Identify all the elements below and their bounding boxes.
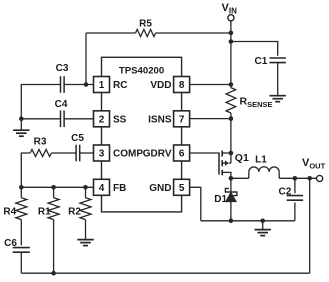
wire Q1 to L1 <box>231 177 249 179</box>
wire R1 to bus <box>53 220 55 274</box>
resistor R3 <box>30 136 51 156</box>
wire bottom bus <box>21 272 309 274</box>
node D1 anode junction <box>229 219 234 224</box>
svg-text:C3: C3 <box>56 63 69 74</box>
svg-text:C2: C2 <box>279 187 292 198</box>
node ISNS junction <box>229 116 234 121</box>
wire gnd stem left <box>20 119 22 130</box>
svg-text:7: 7 <box>179 114 185 125</box>
wire R3 to C5 <box>51 152 76 154</box>
pin 4 FB <box>94 179 127 195</box>
resistor R1 <box>38 187 59 219</box>
wire C2 bottom <box>294 203 296 221</box>
wire C1 to ground <box>277 63 279 96</box>
wire VIN down <box>230 21 232 85</box>
node C2 junction <box>293 176 298 181</box>
wire pin1 to C3 <box>64 84 93 86</box>
svg-text:R3: R3 <box>34 136 47 147</box>
svg-text:C4: C4 <box>55 99 68 110</box>
svg-text:L1: L1 <box>255 154 267 165</box>
wire GND pin5 <box>190 187 201 221</box>
svg-text:VDD: VDD <box>150 80 171 91</box>
ground under R2 <box>77 240 93 246</box>
wire C5 to pin3 <box>80 152 94 154</box>
wire to C1 <box>231 42 278 56</box>
svg-text:5: 5 <box>179 183 185 194</box>
wire C3 left <box>21 85 60 119</box>
wire C4 left stub <box>21 118 60 120</box>
svg-text:R5: R5 <box>139 19 152 30</box>
wire L1 to VOUT <box>279 177 316 179</box>
svg-text:R4: R4 <box>3 206 16 217</box>
wire C4 to pin2 <box>64 118 93 120</box>
svg-text:3: 3 <box>99 149 105 160</box>
wire GDRV to gate <box>190 152 219 154</box>
node RC junction <box>84 82 89 87</box>
node VDD junction <box>229 82 234 87</box>
pin 5 GND <box>149 179 189 195</box>
ground bottom <box>255 230 271 236</box>
node feedback junction <box>307 176 312 181</box>
svg-text:SS: SS <box>113 114 127 125</box>
svg-text:R1: R1 <box>38 206 51 217</box>
transistor Q1 <box>219 151 249 179</box>
capacitor C3 <box>56 63 69 93</box>
capacitor C1 <box>255 56 286 67</box>
terminal V_OUT <box>302 157 326 182</box>
svg-text:2: 2 <box>99 114 105 125</box>
svg-text:ISNS: ISNS <box>148 114 172 125</box>
wire R5 horizontal left <box>86 32 136 34</box>
node VIN-C1 junction <box>229 39 234 44</box>
svg-text:GND: GND <box>149 183 171 194</box>
wire ISNS <box>190 118 231 120</box>
wire rail to Q1 <box>230 119 232 153</box>
wire FB <box>21 186 93 188</box>
capacitor C2 <box>279 187 304 201</box>
svg-text:C6: C6 <box>4 238 17 249</box>
pin 7 ISNS <box>148 111 189 127</box>
wire ground stem <box>262 221 264 229</box>
wire C6 to bus <box>20 252 22 273</box>
node VIN-R5 junction <box>229 31 234 36</box>
svg-text:RSENSE: RSENSE <box>240 96 273 110</box>
svg-text:R2: R2 <box>68 206 81 217</box>
svg-text:6: 6 <box>179 149 185 160</box>
capacitor C5 <box>71 133 84 162</box>
svg-text:1: 1 <box>99 80 105 91</box>
resistor R2 <box>68 187 91 219</box>
diode D1 <box>214 188 237 205</box>
ground under C1 <box>270 96 286 102</box>
node FB-R2 junction <box>83 185 88 190</box>
wire VOUT feedback vertical <box>309 178 311 273</box>
svg-text:VIN: VIN <box>222 2 238 16</box>
ground left <box>13 130 29 136</box>
node Q1 source junction <box>229 151 234 156</box>
svg-text:RC: RC <box>113 80 127 91</box>
capacitor C4 <box>55 99 68 127</box>
svg-text:C1: C1 <box>255 56 268 67</box>
pin 2 SS <box>94 111 127 127</box>
wire R3 left vertical <box>21 153 30 187</box>
capacitor C6 <box>4 238 30 252</box>
terminal V_IN <box>222 2 238 21</box>
wire R5 horizontal right <box>156 32 231 34</box>
resistor R4 <box>3 187 26 245</box>
node FB-R1 junction <box>51 185 56 190</box>
svg-text:TPS40200: TPS40200 <box>119 66 164 77</box>
resistor R_SENSE <box>226 85 272 119</box>
svg-text:8: 8 <box>179 80 185 91</box>
IC U1 TPS40200 body <box>102 57 182 212</box>
svg-text:GDRV: GDRV <box>143 149 172 160</box>
svg-text:FB: FB <box>113 183 126 194</box>
svg-text:4: 4 <box>99 183 105 194</box>
svg-text:D1: D1 <box>214 194 227 205</box>
wire VDD <box>190 84 231 86</box>
wire R5 left vertical <box>85 33 87 85</box>
inductor L1 <box>249 154 279 178</box>
node FB-R4 junction <box>19 185 24 190</box>
pin 1 RC <box>94 77 128 93</box>
node ground junction <box>260 219 265 224</box>
pin 8 VDD <box>150 77 189 93</box>
wire D1 to bus <box>230 202 232 221</box>
svg-text:COMP: COMP <box>113 149 143 160</box>
pin 6 GDRV <box>143 145 190 161</box>
svg-text:Q1: Q1 <box>235 152 249 164</box>
node Q1 drain junction <box>229 176 234 181</box>
pin 3 COMP <box>94 145 144 161</box>
resistor R5 <box>136 19 156 37</box>
wire C2 top <box>294 178 296 193</box>
node bus-R1 junction <box>51 271 56 276</box>
wire bottom ground bus <box>201 220 295 222</box>
svg-text:VOUT: VOUT <box>302 157 326 171</box>
wire drain to D1 <box>230 178 232 192</box>
svg-text:C5: C5 <box>71 133 84 144</box>
wire R2 to ground <box>85 220 87 240</box>
node C4-gnd junction <box>19 117 24 122</box>
